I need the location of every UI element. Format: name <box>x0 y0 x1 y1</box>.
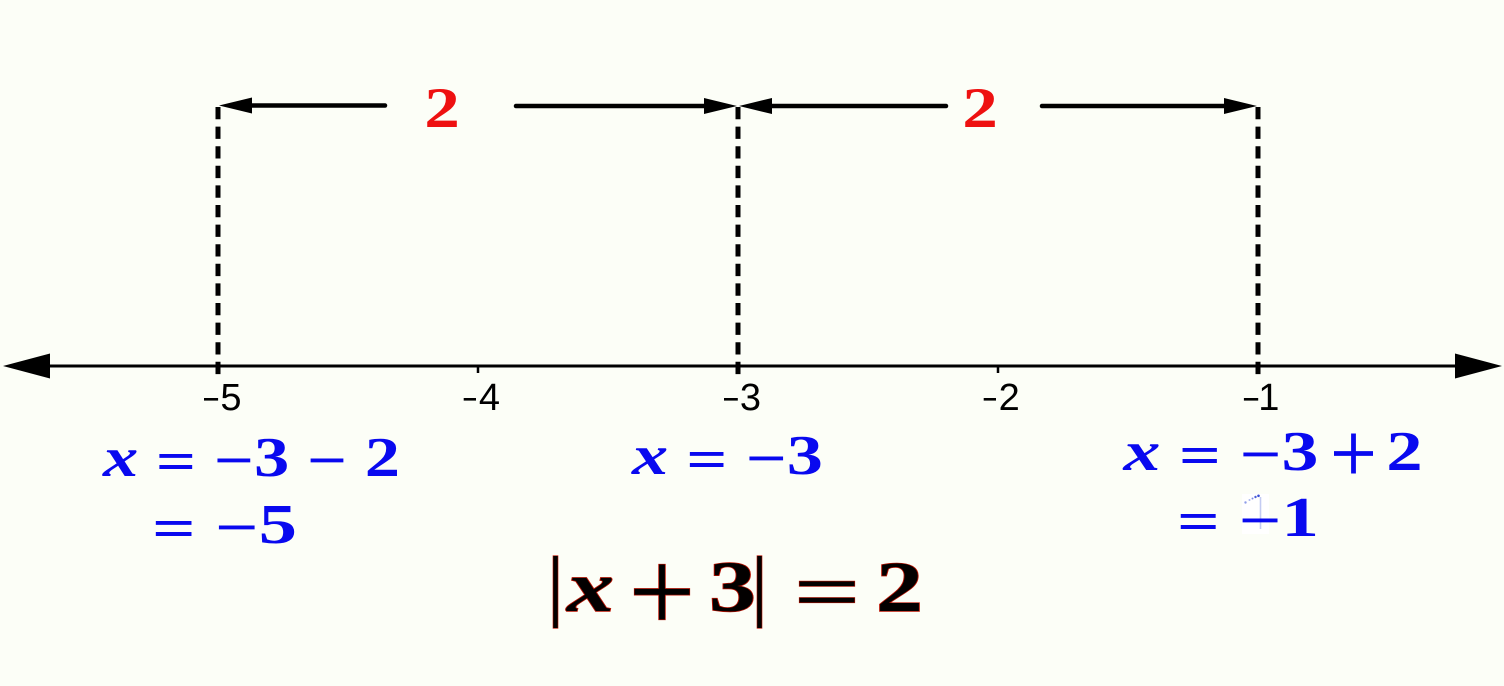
svg-text:x = −3: x = −3 <box>1122 421 1318 487</box>
ghost pencil stem artifact <box>1260 497 1262 529</box>
dashed line at -1 <box>1256 107 1261 374</box>
tick at -2 <box>997 365 1000 373</box>
tick label -3 <box>724 398 738 401</box>
svg-text:x = −3 − 2: x = −3 − 2 <box>102 427 400 493</box>
dashed line at -5 <box>216 107 221 374</box>
svg-text:x = −3: x = −3 <box>631 425 823 491</box>
tick label -1 <box>1244 398 1258 401</box>
top right-pointing arrow of pair 1 <box>516 98 737 114</box>
plus sign <box>634 564 690 620</box>
axis right arrowhead <box>1455 354 1502 379</box>
svg-text:2: 2 <box>962 77 998 140</box>
equals sign <box>800 581 855 586</box>
right absolute-value bar <box>757 556 761 628</box>
tick label -2 <box>984 398 996 401</box>
svg-text:= −1: = −1 <box>1177 487 1319 553</box>
top right-pointing arrow of pair 2 <box>1042 98 1257 114</box>
left absolute-value bar <box>553 556 557 628</box>
svg-text:2: 2 <box>1386 421 1422 483</box>
red distance label 2 (pair 1) <box>424 77 460 140</box>
top left-pointing arrow of pair 1 <box>219 98 385 114</box>
plus sign of x = -3 + 2 <box>1334 434 1373 474</box>
italic x <box>565 548 614 627</box>
red distance label 2 (pair 2) <box>962 77 998 140</box>
svg-text:= −5: = −5 <box>152 494 297 560</box>
ghost dot artifacts <box>1244 501 1246 503</box>
tick label -4 <box>464 398 476 401</box>
white correction patch behind the minus of -1 <box>1242 494 1269 534</box>
svg-text:1: 1 <box>1258 377 1279 419</box>
svg-text:x: x <box>565 548 614 627</box>
digit 2 of x = -3 + 2 <box>1386 421 1422 483</box>
top left-pointing arrow of pair 2 <box>739 98 946 114</box>
dashed line at -3 <box>736 107 741 374</box>
tick at -4 <box>477 365 480 373</box>
tick label -5 <box>204 398 218 401</box>
axis left arrowhead <box>3 354 50 379</box>
digit 3 <box>709 548 756 627</box>
digit 2 <box>876 548 923 627</box>
svg-text:2: 2 <box>424 77 460 140</box>
svg-text:2: 2 <box>876 548 923 627</box>
svg-text:3: 3 <box>740 377 761 419</box>
svg-text:4: 4 <box>479 377 500 419</box>
svg-text:3: 3 <box>709 548 756 627</box>
svg-text:5: 5 <box>220 377 241 419</box>
bottom equation |x + 3| = 2 <box>553 548 923 628</box>
number line axis <box>20 365 1484 368</box>
svg-text:2: 2 <box>999 377 1020 419</box>
